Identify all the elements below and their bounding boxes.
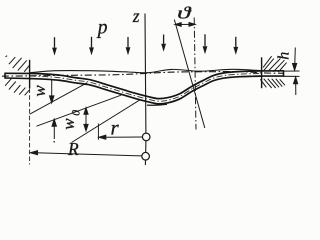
axis segment below lower circle [144,160,146,165]
deformed plate band: bottom surface [30,76,262,104]
r dimension line with arrow [99,135,143,139]
oblique witness line C [72,100,141,143]
svg-text:h: h [276,52,293,60]
oblique witness line B [37,95,122,126]
oblique witness line A [30,83,87,114]
svg-text:r: r [111,115,120,139]
deformed plate band: top surface [30,71,262,99]
right wall hatching below [260,79,285,88]
axis node circle (R line) [142,152,150,160]
z axis [144,14,147,134]
svg-text:R: R [67,139,79,159]
svg-text:p: p [96,17,108,38]
theta angle double arrow [175,23,195,27]
r dimension witness line [97,124,99,140]
right wall face [261,57,263,88]
w dimension up arrow [52,119,56,142]
left witness (dashed) extension line [29,89,31,165]
thickness extension ticks right [284,71,300,76]
axis node circle (r line) [142,133,150,141]
original normal (dash-dot) for angle theta [194,18,196,130]
retraced stroke at curve bottom [147,103,167,106]
plate end embedded in left wall (slot) [5,73,30,79]
svg-text:z: z [132,6,140,26]
svg-text:w: w [59,118,78,130]
axis segment between circles [145,141,147,153]
w dimension down arrow [50,80,54,103]
w0 dimension double arrow [84,108,88,131]
left wall hatching above [6,56,30,72]
deformed plate band: mid-surface dash-dot [30,74,262,102]
plate end embedded in right wall (slot) [262,70,284,77]
left wall hatching below [5,78,29,95]
undeformed middle plane (dash-dot axis line) [2,72,284,77]
rotated normal line (angle theta) [174,20,205,129]
left wall face [29,60,31,89]
undeformed plate top surface (thin line) [30,69,262,73]
R dimension line with arrow [30,151,142,156]
svg-text:0: 0 [71,110,83,116]
right wall hatching above [263,56,287,72]
svg-text:w: w [30,85,49,97]
pressure arrows p (distributed load) [52,34,238,55]
h dimension arrows [293,48,298,96]
